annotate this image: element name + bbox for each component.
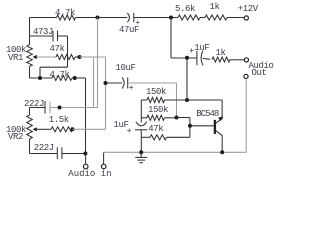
resistor R 1.5k	[51, 127, 73, 132]
resistor R 4.7k lower	[52, 76, 72, 81]
label +	[135, 20, 139, 28]
wire ground bus	[104, 151, 247, 153]
node junction audio-in rail / 222J lower	[83, 152, 87, 156]
capacitor C 473J right plate	[57, 31, 59, 42]
label 222J	[34, 144, 54, 152]
transistor Q BC548 arrow (upper lead)	[218, 116, 223, 121]
terminal Audio Out signal	[244, 58, 248, 62]
wire C 473J to corner	[58, 35, 68, 37]
label 1uF	[114, 121, 129, 129]
node base B	[188, 124, 192, 128]
wire 1uF lower to ground	[140, 130, 142, 153]
wire C 222J upper to rails	[50, 107, 98, 109]
wire to C 1uF output	[171, 57, 197, 59]
capacitor C 10uF curved plate	[122, 78, 124, 89]
wire VR1 bottom to R 4.7k lower	[30, 77, 53, 79]
circuit schematic: one-transistor BC548 tone control preamp	[0, 0, 276, 183]
resistor R 1k top	[205, 15, 227, 20]
wire 47k output stub	[75, 56, 80, 58]
wire C 10uF output	[128, 82, 177, 84]
capacitor C 222J upper right plate	[49, 102, 51, 114]
wire VR2 bottom down	[29, 139, 31, 154]
wire left rail down to VR1 top	[29, 18, 31, 45]
wire vertical 473J bypass	[67, 36, 69, 67]
ground bar 2	[137, 159, 145, 161]
label 47k	[148, 125, 163, 133]
wire to R 150k upper	[141, 99, 147, 101]
label Audio	[249, 62, 274, 70]
node junction top rail / VR2 feed	[96, 16, 100, 20]
resistor R 1k output	[212, 57, 230, 62]
label 1.5k	[49, 116, 69, 124]
ground bar 1	[135, 156, 147, 158]
label 100k	[6, 46, 26, 54]
label +12V	[238, 5, 258, 13]
node on 222J upper wire	[58, 106, 62, 110]
node junction ground	[139, 150, 143, 154]
label BC548	[196, 110, 218, 118]
label 4.7k	[55, 9, 75, 17]
ground bar 3	[140, 162, 144, 164]
label 1k	[210, 3, 220, 11]
wire VR1 bottom down	[29, 67, 31, 79]
wire VR2 top to C 222J upper	[30, 107, 46, 109]
resistor R 5.6k	[178, 15, 200, 20]
label Out	[252, 69, 267, 77]
capacitor C 1uF output straight plate	[196, 51, 198, 65]
label 473J	[33, 28, 53, 36]
wire branch to C 473J	[30, 35, 54, 37]
capacitor C 47uF curved plate	[127, 13, 129, 22]
label +	[129, 85, 133, 93]
capacitor C 222J lower left plate	[56, 147, 58, 159]
wire between 5.6k and 1k	[200, 17, 205, 19]
label +	[127, 128, 131, 136]
terminal Audio in ground	[101, 164, 106, 169]
resistor R 150k lower	[147, 115, 165, 120]
wire vertical to 10uF and 1.5k	[105, 57, 107, 129]
ground stub	[140, 152, 142, 157]
wire vertical mix rail A	[93, 57, 95, 108]
capacitor C 222J lower right plate	[61, 147, 63, 159]
wire down to audio in terminal 1	[85, 154, 87, 165]
capacitor C 222J upper left plate	[44, 101, 46, 114]
label +	[189, 48, 193, 56]
wire down to audio in terminal 2	[103, 152, 105, 164]
wire to +12V terminal	[227, 17, 244, 19]
wire C 1uF to R 1k output	[203, 57, 210, 60]
wire to R 47k lower	[141, 136, 150, 138]
capacitor C 1uF lower curved plate	[136, 122, 147, 126]
wire 150k upper to collector column	[165, 99, 223, 101]
wire down to VR2 top	[29, 108, 31, 116]
wire vertical to base row	[189, 118, 191, 138]
transistor Q BC548 lower lead	[216, 131, 223, 153]
terminal Audio in signal	[83, 164, 88, 169]
resistor R 4.7k top	[57, 15, 76, 20]
wire VR2 wiper to 1.5k	[37, 128, 51, 130]
wire C 222J lower to audio-in rail	[62, 153, 86, 155]
capacitor C 1uF output curved plate	[201, 51, 203, 65]
potentiometer VR1 wiper arrow	[33, 55, 37, 59]
resistor R 47k treble	[56, 55, 75, 60]
capacitor C 473J left plate	[52, 31, 54, 42]
label 4.7k	[50, 71, 70, 79]
potentiometer VR1 100k element	[27, 45, 33, 67]
wire top rail to C 47uF	[76, 17, 128, 19]
label VR1	[8, 54, 23, 62]
wire Audio Out ground down to bus	[245, 79, 247, 153]
terminal +12V	[244, 16, 248, 20]
wire long vertical audio-in rail	[85, 78, 87, 154]
label 222J	[24, 100, 44, 108]
label 10uF	[116, 64, 136, 72]
wire vertical rail from top junction	[97, 18, 99, 108]
wire VR2 bottom to C 222J lower	[30, 153, 58, 155]
wire vertical 10uF output to base network	[176, 83, 178, 118]
wire horizontal 473J bypass	[40, 66, 68, 68]
label 47k	[50, 45, 65, 53]
label 47uF	[119, 26, 139, 34]
transistor Q BC548 base bar	[214, 120, 216, 134]
label 1uF	[194, 44, 209, 52]
wire to Audio Out terminal	[230, 59, 244, 61]
wire 47k output to 10uF column	[80, 56, 106, 58]
potentiometer VR2 100k element	[27, 115, 33, 139]
node 47k output	[78, 55, 82, 59]
resistor R 150k upper	[147, 97, 165, 102]
node junction emitter / ground bus	[220, 150, 224, 154]
wire node to C 10uF	[106, 82, 123, 84]
label 100k	[6, 126, 26, 134]
node 1.5k output	[71, 127, 75, 131]
wire 1.5k output to 10uF column	[73, 128, 106, 130]
label 150k	[148, 106, 168, 114]
wire vertical bias column	[140, 100, 142, 122]
node junction collector network	[185, 98, 189, 102]
capacitor C 10uF straight plate	[127, 78, 129, 89]
wire 150k lower to base node	[165, 117, 177, 119]
wire collector riser	[221, 100, 223, 119]
wire 47k lower to base column	[167, 136, 190, 138]
wire base node A to corner	[177, 117, 190, 119]
capacitor C 47uF straight plate	[133, 13, 135, 22]
capacitor C 1uF lower straight plate	[135, 129, 148, 131]
node junction output branch	[185, 56, 189, 60]
node base network A	[175, 116, 179, 120]
node 4.7k lower output	[73, 76, 77, 80]
label 5.6k	[175, 5, 195, 13]
wire top rail left segment	[30, 17, 57, 19]
wire vertical down to 4.7k row	[39, 67, 41, 78]
wire to R 150k lower	[141, 117, 147, 119]
wire vertical collector to output branch	[186, 58, 188, 100]
transistor Q BC548 upper lead	[216, 119, 222, 124]
wire 4.7k to down corner	[72, 77, 86, 79]
wire VR1 wiper to 47k	[37, 56, 56, 58]
terminal Audio Out ground	[244, 74, 248, 78]
label VR2	[8, 133, 23, 141]
wire vertical from top rail to output branch	[170, 18, 172, 59]
wire top rail to R 5.6k	[134, 17, 178, 19]
node junction top rail / collector feed	[169, 16, 173, 20]
wire base B to transistor base	[190, 125, 214, 127]
node junction 473J bypass / 4.7k row	[38, 76, 42, 80]
label 1k	[216, 49, 226, 57]
label 150k	[146, 88, 166, 96]
node junction 10uF feed	[104, 81, 108, 85]
label Audio in	[68, 170, 111, 178]
resistor R 47k lower	[150, 135, 167, 140]
potentiometer VR2 wiper arrow	[33, 127, 37, 131]
